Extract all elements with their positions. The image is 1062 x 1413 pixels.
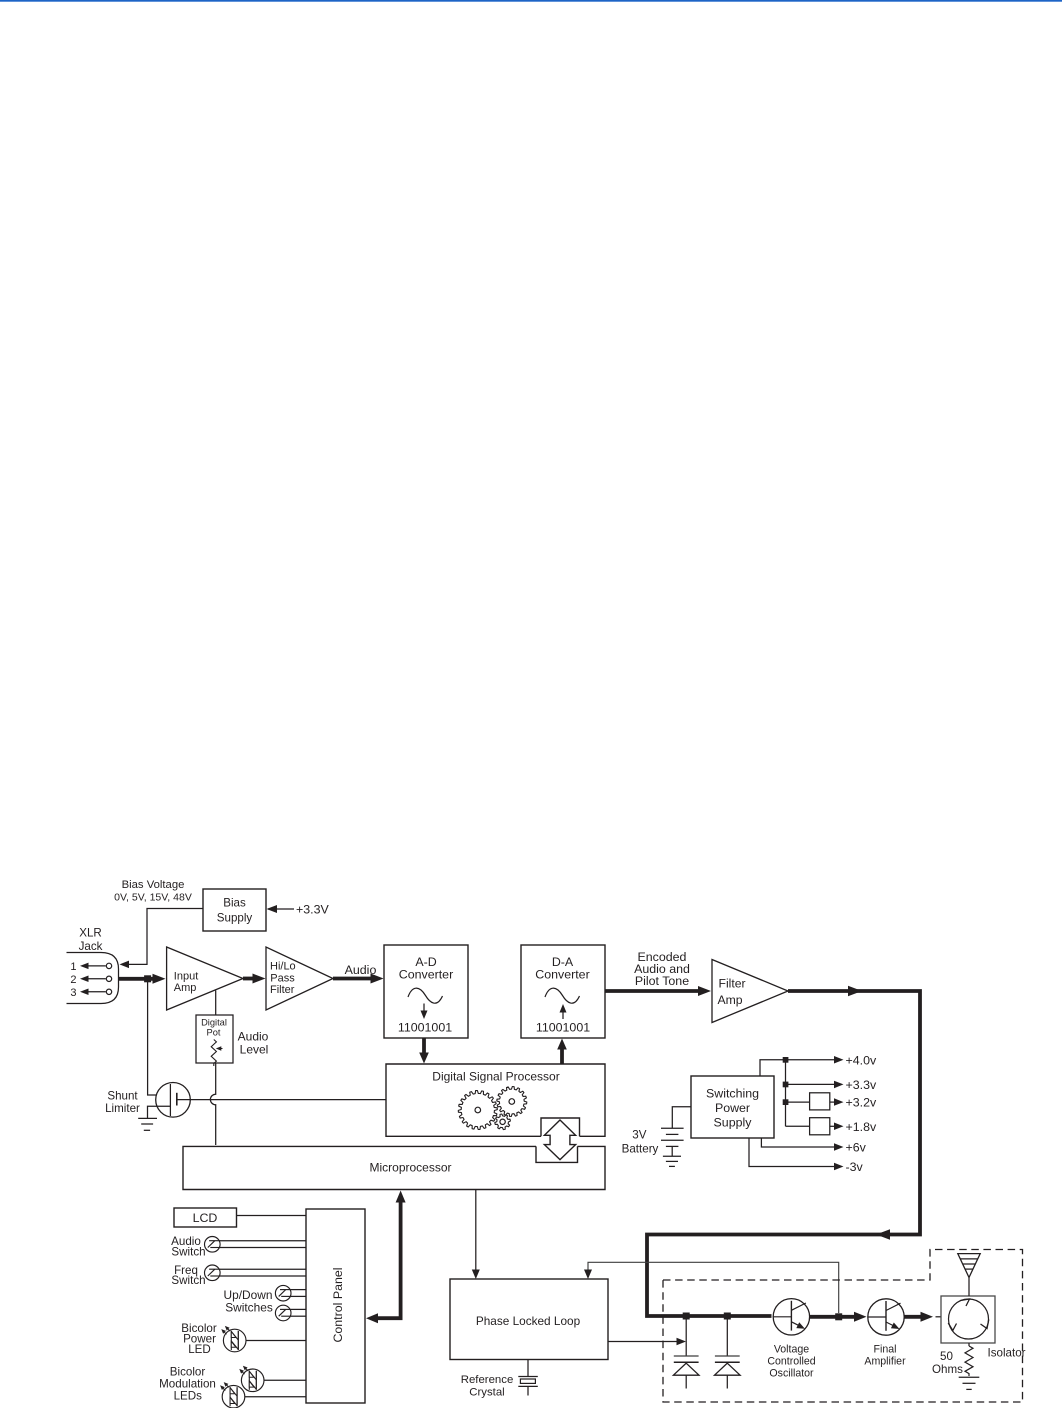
svg-text:+3.2v: +3.2v	[846, 1096, 877, 1110]
svg-text:Control Panel: Control Panel	[331, 1267, 345, 1342]
regulator box +1.8v	[786, 1125, 810, 1127]
svg-text:Reference: Reference	[461, 1374, 514, 1386]
wire DSP to D-A (thick)	[560, 1046, 564, 1064]
svg-text:Switch: Switch	[171, 1245, 205, 1258]
gear large	[458, 1091, 497, 1130]
svg-text:Amp: Amp	[718, 993, 743, 1007]
wire Digital Pot to Microprocessor (with hop over shunt wire)	[210, 1063, 215, 1145]
svg-text:XLR: XLR	[79, 927, 102, 940]
wires Audio switch to panel	[220, 1240, 306, 1242]
svg-text:Hi/Lo: Hi/Lo	[270, 961, 296, 973]
svg-text:+6v: +6v	[846, 1141, 867, 1155]
svg-text:Controlled: Controlled	[767, 1356, 815, 1368]
transistor Q1 shunt limiter	[156, 1083, 191, 1118]
regulator box +3.2v	[786, 1101, 810, 1103]
svg-text:Switching: Switching	[706, 1087, 759, 1101]
LCD box	[174, 1208, 237, 1227]
svg-text:+3.3V: +3.3V	[296, 903, 329, 917]
svg-text:Digital: Digital	[201, 1018, 227, 1028]
svg-text:11001001: 11001001	[398, 1021, 452, 1035]
LED D3 bicolor modulation	[222, 1385, 245, 1408]
wire Microprocessor/Control Panel thick link	[372, 1196, 401, 1318]
svg-text:Pilot Tone: Pilot Tone	[635, 974, 689, 988]
wire shunt limiter source stub to ground	[148, 1106, 171, 1118]
svg-text:Bias: Bias	[223, 897, 246, 910]
D-A sine symbol	[545, 988, 580, 1003]
wire A-D to DSP (thick)	[422, 1038, 426, 1056]
svg-text:Voltage: Voltage	[774, 1344, 809, 1356]
svg-text:2: 2	[70, 974, 76, 986]
amplifier Filter Amp	[712, 960, 788, 1023]
Control Panel box	[306, 1209, 365, 1403]
wire Microprocessor to PLL	[475, 1190, 477, 1272]
switch SW4 Down	[275, 1305, 291, 1321]
switch SW3 Up	[275, 1285, 291, 1301]
svg-text:Digital Signal Processor: Digital Signal Processor	[432, 1070, 559, 1084]
D-A output arrow	[562, 1011, 564, 1019]
circulator arrows	[961, 1299, 970, 1306]
op-amp Input Amp	[167, 947, 243, 1010]
svg-text:Oscillator: Oscillator	[769, 1368, 814, 1380]
svg-text:11001001: 11001001	[536, 1021, 590, 1035]
svg-text:Level: Level	[240, 1043, 269, 1057]
svg-text:Final: Final	[874, 1344, 897, 1356]
svg-text:Supply: Supply	[714, 1116, 753, 1130]
svg-text:Phase Locked Loop: Phase Locked Loop	[476, 1314, 581, 1328]
wire Hi/Lo to A-D (thick)	[333, 977, 375, 981]
node junction varactor D4	[683, 1313, 690, 1320]
ground below 50 Ohms	[959, 1376, 980, 1378]
wire -3v	[749, 1138, 837, 1167]
node junction VCO output	[835, 1313, 842, 1320]
filter Hi/Lo Pass Filter	[266, 947, 333, 1010]
svg-text:50: 50	[940, 1350, 953, 1363]
wires Freq switch to panel	[220, 1268, 306, 1270]
A-D sine symbol	[408, 988, 443, 1003]
svg-text:Amp: Amp	[174, 982, 197, 994]
wire XLR to Input Amp (thick)	[119, 977, 158, 981]
gear small	[495, 1114, 511, 1130]
wire PLL tuning output to varactors	[608, 1341, 678, 1343]
svg-text:Input: Input	[174, 971, 198, 983]
svg-text:Amplifier: Amplifier	[864, 1356, 906, 1368]
svg-text:Filter: Filter	[719, 977, 746, 991]
svg-text:Isolator: Isolator	[987, 1347, 1025, 1360]
svg-text:Limiter: Limiter	[105, 1102, 140, 1115]
D-A converter U-DA	[521, 945, 605, 1038]
bus connector tabs between DSP and Microprocessor	[541, 1118, 580, 1136]
svg-text:Ohms: Ohms	[932, 1363, 963, 1376]
wire Filter Amp to RF section (thick), with mid arrowhead	[647, 991, 920, 1316]
wire FA to isolator (thick)	[904, 1315, 925, 1319]
svg-text:Power: Power	[715, 1101, 750, 1115]
svg-text:LEDs: LEDs	[174, 1389, 203, 1402]
svg-text:Battery: Battery	[622, 1142, 659, 1155]
connector J1 XLR jack body	[67, 953, 119, 1004]
switching power supply U-SPS	[691, 1076, 774, 1138]
wire Bias Supply to XLR jack pin1	[124, 909, 203, 965]
wire VCO feedback to PLL	[588, 1262, 839, 1313]
svg-text:Pot: Pot	[207, 1028, 221, 1038]
wire D-A to Filter Amp (thick)	[605, 989, 702, 993]
switch SW2 Freq	[205, 1265, 221, 1281]
LED D2 bicolor modulation	[241, 1369, 264, 1392]
bias supply U-BIAS	[203, 889, 266, 931]
svg-text:Microprocessor: Microprocessor	[369, 1161, 451, 1175]
PLL box U-PLL	[450, 1279, 608, 1360]
node junction varactor D5	[724, 1313, 731, 1320]
svg-text:1: 1	[70, 961, 76, 973]
svg-text:Switch: Switch	[171, 1274, 205, 1287]
node junction at XLR output	[144, 975, 151, 982]
svg-text:LED: LED	[188, 1343, 211, 1356]
DSP box U-DSP	[386, 1064, 605, 1136]
svg-text:Bias Voltage: Bias Voltage	[122, 879, 185, 891]
varactor D5	[726, 1318, 728, 1356]
potentiometer Digital Pot	[196, 1015, 233, 1063]
switch SW1 Audio	[205, 1237, 221, 1253]
wire shunt limiter to DSP	[177, 1099, 386, 1101]
svg-text:Shunt: Shunt	[107, 1090, 138, 1103]
wire +3.3v	[786, 1083, 838, 1085]
svg-text:Audio: Audio	[238, 1030, 269, 1044]
svg-text:Jack: Jack	[79, 940, 103, 953]
svg-text:+1.8v: +1.8v	[846, 1120, 877, 1134]
svg-text:3: 3	[70, 987, 76, 999]
LED D1 bicolor power	[223, 1329, 246, 1352]
svg-text:Switches: Switches	[225, 1301, 273, 1315]
ground below shunt limiter	[138, 1117, 157, 1119]
A-D sample arrow	[423, 1004, 425, 1013]
wire LCD to Control Panel	[237, 1215, 307, 1217]
svg-text:+4.0v: +4.0v	[846, 1054, 877, 1068]
svg-text:Pass: Pass	[270, 972, 295, 984]
wire VCO to Final Amplifier (thick)	[810, 1315, 858, 1319]
svg-text:3V: 3V	[632, 1128, 646, 1141]
wire Input Amp to Hi/Lo filter (thick)	[243, 977, 257, 981]
wire +3.3V into Bias Supply	[268, 908, 294, 910]
svg-text:0V, 5V, 15V, 48V: 0V, 5V, 15V, 48V	[114, 892, 192, 904]
dashed RF module boundary	[663, 1250, 1023, 1403]
A-D converter U-AD	[384, 945, 468, 1038]
transistor VCO	[773, 1299, 809, 1335]
isolator U-ISO	[941, 1296, 995, 1343]
varactor D4	[685, 1318, 687, 1356]
svg-text:LCD: LCD	[193, 1211, 218, 1225]
ground below battery	[663, 1155, 681, 1157]
antenna	[968, 1278, 970, 1297]
svg-text:Converter: Converter	[535, 967, 589, 981]
gear medium	[497, 1087, 527, 1117]
wire +6v	[761, 1138, 837, 1147]
svg-text:-3v: -3v	[846, 1160, 864, 1174]
svg-text:Filter: Filter	[270, 984, 295, 996]
svg-text:Crystal: Crystal	[469, 1386, 504, 1398]
svg-text:Supply: Supply	[217, 912, 253, 925]
wire junction down to shunt limiter gate	[148, 982, 170, 1095]
Microprocessor box U-MPU	[183, 1146, 605, 1189]
transistor Final Amplifier	[868, 1299, 904, 1335]
bus double arrow	[544, 1120, 575, 1160]
svg-text:+3.3v: +3.3v	[846, 1078, 877, 1092]
wire power rail vertical	[785, 1060, 787, 1127]
wire Input Amp to Digital Pot	[215, 991, 217, 1016]
wire power LED to panel	[246, 1340, 306, 1342]
svg-text:Converter: Converter	[399, 967, 453, 981]
wire +4.0v	[760, 1060, 837, 1076]
